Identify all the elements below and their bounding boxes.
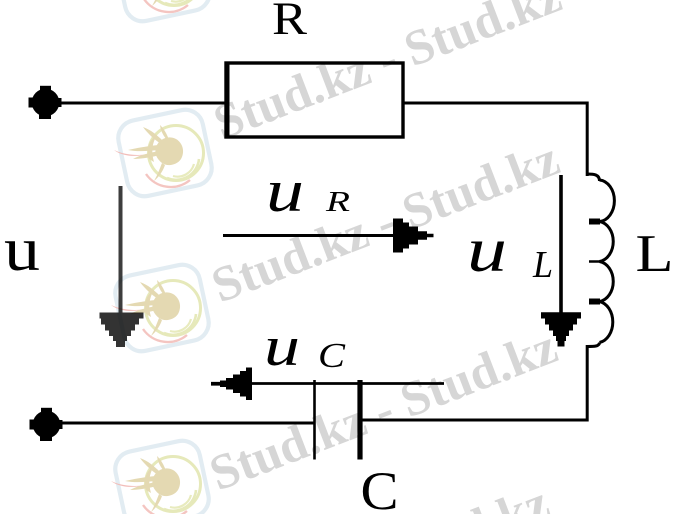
capacitor C [315, 380, 361, 460]
svg-text:u: u [4, 216, 40, 284]
watermark logo 2 [111, 261, 212, 354]
inductor L [587, 174, 614, 347]
terminal dot (top input) [29, 86, 62, 119]
label u_R [266, 158, 350, 224]
label u_C [264, 316, 346, 378]
svg-text:R: R [272, 0, 308, 45]
svg-text:L: L [636, 225, 673, 283]
label u_L [467, 214, 553, 286]
arrow u_L (down) [541, 175, 581, 347]
wire (resistor to top-right corner and down) [403, 103, 587, 176]
svg-text:C: C [318, 336, 346, 375]
arrow u_C (left) [211, 368, 444, 401]
svg-text:u: u [266, 158, 304, 224]
watermark logo (top edge, partial) [112, 0, 213, 25]
resistor R [225, 62, 404, 139]
terminal dot (bottom input) [30, 408, 63, 441]
wire (top, dot to resistor) [47, 102, 226, 105]
wire (inductor to bottom-right corner and left) [362, 345, 587, 420]
watermark logo 1 [114, 106, 215, 199]
arrow u (input voltage, down) [100, 186, 144, 347]
svg-text:L: L [532, 244, 553, 286]
svg-text:u: u [467, 214, 507, 285]
wire (bottom, dot to capacitor) [47, 422, 315, 425]
svg-text:u: u [264, 316, 300, 378]
arrow u_R (right) [223, 219, 434, 253]
watermark logo 3 [111, 437, 212, 514]
svg-text:C: C [361, 461, 399, 514]
